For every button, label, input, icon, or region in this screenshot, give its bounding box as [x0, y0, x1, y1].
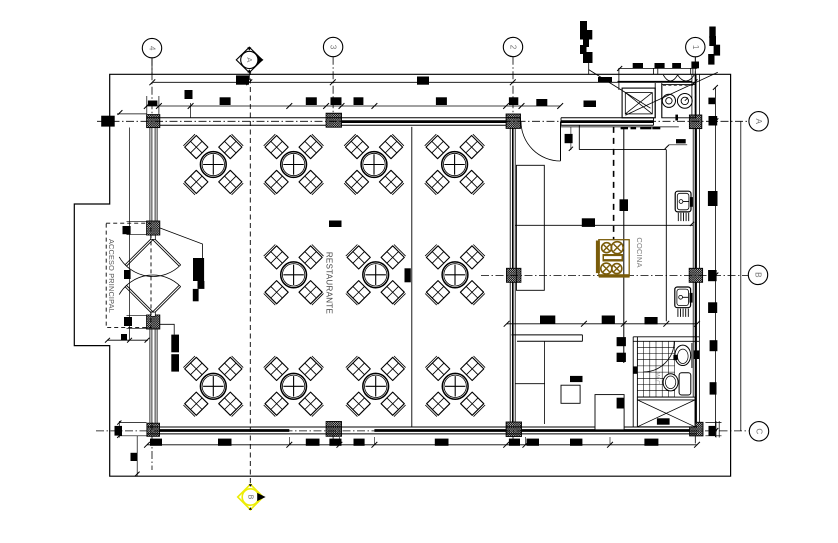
dim text B6 [435, 439, 449, 446]
dim text B1 [150, 439, 162, 446]
column C2 [506, 422, 521, 437]
dim text T6 [354, 97, 364, 105]
kitchen dim text K3 [540, 316, 555, 325]
top wall core (solid segments) [342, 120, 507, 123]
dim text B10 [644, 439, 658, 446]
sink leader [666, 145, 687, 148]
dim text R5 [708, 302, 717, 313]
dim text T4 [306, 97, 317, 105]
dimension line vestibule bottom [107, 339, 148, 341]
top wall lower face [160, 124, 326, 126]
dashed counter front [621, 127, 628, 130]
svg-text:RESTAURANTE: RESTAURANTE [325, 252, 334, 314]
svg-text:B: B [754, 272, 763, 278]
dim text R7 [710, 382, 717, 394]
office top wall [512, 334, 583, 336]
grid bubble 1 stem [694, 57, 696, 75]
kitchen north boundary [578, 125, 580, 149]
office cabinet label [617, 398, 625, 409]
kitchen block west edge [618, 68, 620, 90]
bathroom west wall pier [633, 366, 637, 373]
counter edge below top wall [561, 126, 679, 128]
shower box with X [637, 397, 695, 427]
round sink 1 [662, 94, 675, 107]
dim text T1 [148, 101, 158, 107]
right wall A-B segment [692, 129, 694, 269]
vest col1 dim marks [127, 221, 147, 223]
round sink 2 [677, 94, 692, 109]
table T8 with 4 chairs [183, 356, 208, 381]
section marker A [236, 47, 262, 72]
column B1 [689, 268, 702, 282]
annotation text block E2 [198, 281, 205, 289]
extension line col4 left [146, 96, 148, 114]
kitchen dimension line y=323.8 [507, 323, 698, 325]
bathroom floor tile grid [643, 341, 645, 397]
column B2 [507, 268, 521, 282]
extension line window edge x=190.6 [190, 103, 192, 118]
dim text R8 [709, 426, 716, 436]
dim text R1 [708, 98, 715, 105]
annotation stack S1 [580, 21, 587, 32]
table T2 with 4 chairs [264, 134, 289, 159]
kitchen counter line [516, 224, 694, 226]
kitchen east boundary [665, 150, 667, 322]
serving counter rectangle [516, 165, 544, 290]
wall sink 2 [675, 287, 691, 308]
dim text B8 [527, 439, 540, 446]
office inner partition [544, 341, 546, 424]
table T10 with 4 chairs [346, 356, 371, 381]
wall sink 1 hatch [677, 213, 679, 221]
svg-text:1: 1 [691, 45, 700, 50]
dimension line bottom y=444.8 [147, 444, 697, 446]
dim text T5 [331, 97, 342, 105]
stove (4 burners) [599, 240, 629, 276]
extension line bottom-left x=137.2 [136, 436, 138, 476]
leader upper door [160, 228, 203, 258]
column vestibule lower [147, 315, 160, 329]
extension lines below bottom wall [288, 437, 290, 445]
column A4 [147, 115, 160, 128]
wall dim lines at col C-4 [120, 422, 147, 424]
dim text B3 [306, 439, 320, 446]
sink leader text [676, 139, 686, 143]
svg-text:C: C [755, 428, 764, 434]
dim text B2 [218, 439, 232, 446]
overhead dashed line [613, 127, 615, 240]
dimension line top outer y=82 [152, 81, 695, 83]
svg-text:COCINA: COCINA [635, 237, 644, 268]
bathroom door swing [644, 341, 675, 372]
dim text U3 [598, 77, 612, 83]
annotation text block F2 [171, 354, 179, 371]
svg-text:ACCESO PRINCIPAL: ACCESO PRINCIPAL [107, 239, 116, 313]
property boundary line [74, 74, 730, 476]
kitchen annotation text 3 [672, 63, 681, 68]
kitchen block top wall [618, 80, 692, 82]
dim text R2 [709, 116, 718, 126]
dim text R3 [708, 191, 718, 206]
kitchen annotation line [618, 67, 697, 69]
small mark under sink [675, 115, 678, 121]
grid line C (horizontal) [96, 430, 749, 432]
dim text L2 [124, 270, 131, 279]
svg-text:3: 3 [329, 45, 338, 50]
kitchen annotation stems [653, 68, 655, 74]
leader lower door [160, 324, 174, 334]
grid bubble 4 stem [151, 58, 153, 74]
toilet WC [663, 374, 678, 391]
column C4 [147, 423, 160, 436]
grid line 1 (vertical) [694, 57, 696, 116]
dim text V2 (below service door) [565, 134, 573, 143]
table T9 with 4 chairs [264, 356, 289, 381]
lavatory [675, 345, 691, 365]
kitchen dim text K5 [645, 317, 658, 324]
partition line dining [411, 127, 413, 427]
leader to prep square [589, 70, 651, 109]
entrance lower door leaf (right swing) [153, 287, 181, 315]
entrance upper door leaf (right swing) [153, 237, 181, 265]
entrance threshold (dashed) [106, 223, 151, 327]
left wall upper segment [149, 128, 151, 221]
right wall kitchen segment [691, 74, 693, 115]
kitchen annotation text 1 [633, 63, 643, 68]
dim text B12 (left of col C4) [115, 426, 123, 436]
entrance upper door swing arc [119, 257, 181, 277]
grid line 4 (vertical) [151, 58, 153, 116]
service wall upper (grid2 A-B) [509, 128, 511, 268]
svg-text:A: A [754, 119, 763, 125]
prep sink square inner with X [625, 93, 652, 114]
dim text U1 [236, 75, 249, 84]
dim text R4 [708, 270, 717, 281]
office table label [570, 376, 583, 382]
table T3 with 4 chairs [344, 134, 369, 159]
top wall end caps [520, 118, 522, 126]
dim text B9 [570, 439, 582, 446]
dim text T3 [220, 97, 231, 105]
extension line vestibule x=129.6 [129, 128, 131, 341]
column C1 [690, 422, 703, 436]
annotation text block E3 [193, 289, 199, 301]
grid bubble A (right) [749, 112, 768, 131]
cabinet arcs [663, 75, 677, 81]
annotation text block F1 [171, 335, 179, 353]
bathroom north wall [633, 336, 699, 338]
dim text U2 [417, 77, 429, 85]
dim text T2 [185, 90, 193, 99]
section line A-B (vertical dashed) [249, 70, 251, 484]
dim text T9 [536, 99, 547, 106]
annotation text block E1 [193, 258, 204, 281]
annotation stack S2 [709, 27, 715, 39]
entrance upper door leaf (left swing) [125, 237, 152, 265]
svg-text:2: 2 [509, 45, 518, 50]
grid bubble 1 [686, 37, 705, 56]
bottom wall core (solid segments) [160, 429, 290, 432]
svg-text:B: B [246, 495, 253, 500]
grid bubble 4 [142, 38, 161, 57]
table T6 with 4 chairs [346, 245, 371, 270]
office square table [561, 385, 580, 403]
shower label [657, 418, 670, 424]
dim text L3 [124, 317, 132, 326]
prep sink square outer [622, 88, 655, 118]
dim text V1 (left of col A4) [101, 116, 115, 127]
corridor dim text O1 [617, 337, 626, 346]
grid bubble 3 [323, 37, 342, 56]
table T7 with 4 chairs [425, 245, 450, 270]
wall sink 2 hatch [677, 309, 679, 317]
dim text T8 [509, 97, 518, 105]
grid line A (horizontal) [97, 120, 749, 122]
table T11 with 4 chairs [425, 356, 450, 381]
grid line B (horizontal) [481, 274, 749, 276]
dimension text D1 [329, 221, 342, 228]
section mark on partition [405, 268, 411, 282]
extension line col4 right [158, 96, 160, 114]
dim text B11 [131, 453, 138, 461]
dim text B4 [329, 439, 341, 446]
dim text B7 [509, 439, 520, 446]
entrance lower door swing arc [119, 275, 181, 295]
column A2 [506, 114, 520, 128]
leader to sinks [625, 72, 717, 115]
kitchen counter text [582, 218, 595, 227]
table T5 with 4 chairs [264, 245, 289, 270]
service wall lower (grid2 B-C) [509, 282, 511, 422]
grid bubble B (right) [748, 265, 767, 284]
entrance hinge marks [151, 235, 156, 239]
entrance lower door leaf (left swing) [125, 287, 152, 315]
kitchen partition x=623.8 [623, 127, 625, 363]
bottom wall upper face [147, 426, 697, 428]
grid line 2 (vertical) [512, 57, 514, 115]
column C3 [326, 422, 341, 437]
right wall B-C segment [692, 282, 694, 422]
double sink compartment [662, 85, 696, 118]
grid bubble C (right) [749, 422, 768, 441]
section marker B (yellow) [238, 484, 263, 509]
kitchen dim text K4 [602, 316, 615, 325]
dimension extension line right x=715.4 [714, 87, 716, 437]
column A3 [326, 113, 341, 127]
svg-text:W.C.: W.C. [653, 372, 660, 386]
dim text T10 [584, 101, 597, 108]
dim text L1 [123, 226, 131, 234]
vest col2 dim marks [127, 314, 147, 316]
dashed line text [620, 199, 629, 211]
grid bubble 2 [503, 37, 522, 56]
dimension leader top-left [117, 113, 147, 115]
dim text L4 [121, 334, 127, 340]
frame line right x=740.8 [740, 121, 742, 431]
kitchen annotation text 4 [691, 62, 699, 69]
svg-text:4: 4 [148, 46, 157, 51]
column vestibule upper [147, 221, 160, 235]
dimension line top inner y=106 [146, 105, 560, 107]
office cabinet rect [595, 395, 624, 430]
dim text R6 [710, 340, 718, 351]
table T1 with 4 chairs [183, 134, 208, 159]
door at grid A (service entry) [560, 122, 562, 161]
bottom wall lower face [147, 433, 697, 435]
kitchen divider wall [654, 83, 656, 118]
svg-text:A: A [245, 57, 254, 62]
table T4 with 4 chairs [425, 134, 450, 159]
kitchen annotation text 2 [655, 63, 665, 68]
grid line 3 (vertical) [332, 57, 334, 114]
wall dim lines at col C-1 [705, 422, 721, 424]
right wall pier [694, 350, 700, 359]
dim text B5 [354, 439, 365, 446]
bathroom west wall [632, 337, 634, 427]
corridor dim text O2 [617, 353, 626, 362]
wall sink 1 [675, 191, 691, 212]
top wall upper face [147, 117, 521, 119]
dim text T7 [436, 97, 447, 105]
column A1 [689, 115, 701, 129]
left wall lower segment [149, 329, 151, 423]
